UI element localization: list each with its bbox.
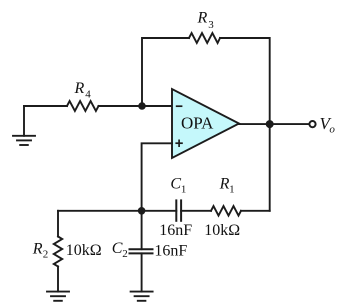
op-amp plus sign bbox=[175, 140, 182, 148]
wire output bbox=[239, 123, 309, 125]
svg-text:4: 4 bbox=[85, 89, 91, 101]
svg-text:10kΩ: 10kΩ bbox=[66, 242, 102, 259]
output terminal circle bbox=[309, 121, 315, 127]
wire noninverting input bbox=[142, 143, 172, 211]
svg-text:1: 1 bbox=[229, 183, 235, 195]
wire C2 to ground bbox=[141, 253, 143, 291]
svg-text:o: o bbox=[329, 124, 335, 136]
svg-text:R: R bbox=[32, 240, 43, 257]
wire left ground stem bbox=[23, 106, 25, 136]
ground left bbox=[13, 136, 35, 145]
svg-text:2: 2 bbox=[43, 249, 49, 261]
node junction dot output bbox=[266, 120, 274, 128]
ground under R2 bbox=[47, 292, 69, 301]
op-amp U1 body bbox=[172, 89, 239, 158]
svg-text:3: 3 bbox=[208, 19, 214, 31]
resistor R3 bbox=[189, 33, 220, 43]
node junction dot bottom bbox=[138, 207, 146, 215]
wire R1 to right vertical bbox=[241, 210, 270, 212]
resistor R4 bbox=[67, 101, 99, 111]
op-amp minus sign bbox=[176, 105, 183, 107]
svg-text:1: 1 bbox=[181, 183, 187, 195]
resistor R2 bbox=[54, 237, 62, 267]
svg-text:16nF: 16nF bbox=[154, 242, 187, 259]
wire bottom left segment bbox=[58, 210, 176, 212]
svg-text:R: R bbox=[197, 9, 208, 26]
node junction dot inverting input bbox=[138, 102, 146, 110]
wire R4 to op-amp bbox=[99, 105, 173, 107]
wire C1 to R1 bbox=[181, 210, 211, 212]
resistor R1 bbox=[211, 206, 241, 216]
svg-text:C: C bbox=[170, 176, 181, 193]
svg-text:2: 2 bbox=[122, 248, 128, 260]
wire junction to C2 bbox=[141, 211, 143, 249]
wire top feedback left segment bbox=[142, 38, 189, 106]
svg-text:C: C bbox=[112, 240, 123, 257]
wire R2 to ground bbox=[57, 267, 59, 292]
svg-text:10kΩ: 10kΩ bbox=[204, 222, 240, 239]
svg-text:R: R bbox=[219, 175, 230, 192]
wire inverting input bbox=[24, 105, 67, 107]
svg-text:16nF: 16nF bbox=[159, 222, 192, 239]
capacitor C2 plates bbox=[130, 249, 153, 253]
wire bottom left corner down to R2 bbox=[57, 211, 59, 237]
svg-text:R: R bbox=[74, 80, 85, 97]
svg-text:OPA: OPA bbox=[181, 114, 214, 133]
capacitor C1 plates bbox=[176, 200, 181, 220]
ground under C2 bbox=[131, 292, 153, 301]
wire top feedback right segment bbox=[220, 38, 270, 211]
